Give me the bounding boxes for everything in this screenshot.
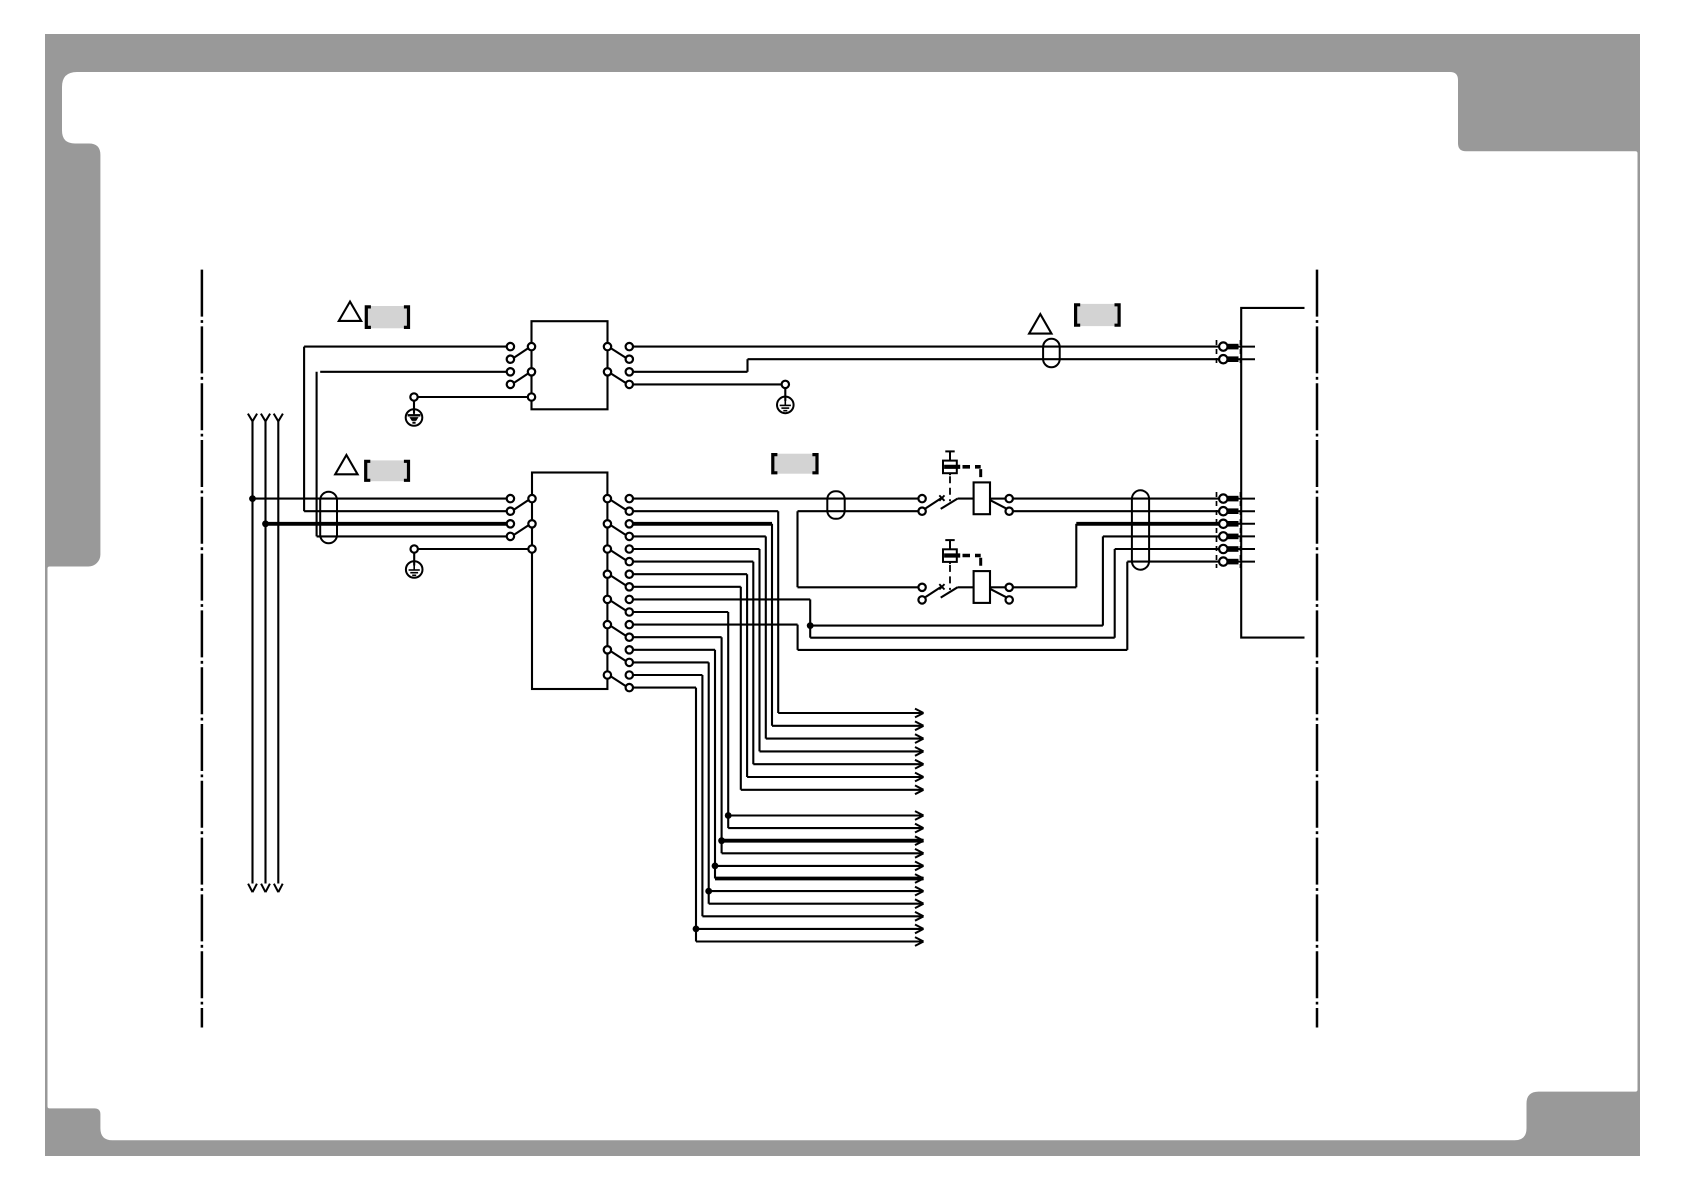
wire: riser top row 549 to pin [1115,548,1220,550]
fan-out arrow group2-1a [728,811,923,820]
wire: breaker2 out to riser thick net [1013,524,1220,588]
shield ellipse right cable [1132,490,1149,569]
caution label box 4 [1076,304,1120,326]
wire: T2 out row to fan arrow group1-1 [633,511,778,713]
connector pin y523 [1219,520,1255,528]
T1 left switch pair 1 [507,343,536,363]
fan-out arrow group1-7 [741,785,924,794]
wire: breaker1 out bottom to connector [1013,510,1220,512]
earth ground symbol near T2 [411,545,418,552]
connector pin guides dashed bottom [1217,492,1241,568]
wire: T2 out row to fan arrow group1-5 [633,562,753,765]
relay output contacts [990,495,1013,515]
fan-out arrow group2-6b [696,937,924,946]
fan-out arrow group2-3a [715,862,924,871]
warning triangle 2 [335,455,357,474]
wire: T1 elbow to T2 row B [304,510,507,512]
wire: breaker1 out top to connector [1013,498,1220,500]
wire: T2 out row to fan group2-4 [633,662,709,903]
fan-out arrow group2-4b [709,899,924,908]
T2 right switch pair 6 [604,621,633,641]
T2 right switch pair 1 [604,495,633,515]
T2 right switch pair 2 [604,520,633,540]
warning triangle 1 [339,302,361,321]
switch contacts [918,584,973,604]
T2 right switch pair 7 [604,646,633,666]
shield ellipse mid cable [827,491,844,519]
earth ground symbol near T1 output [782,381,789,388]
connector pin guides dashed top [1217,340,1241,366]
wire: T2 out row to fan group2-5 [633,675,703,916]
connector pin y549 [1219,545,1255,553]
shield ellipse on T2 input cable [320,492,337,544]
wire: mid route to riser x1103 [810,625,1103,627]
warning triangle 3 [1029,314,1051,334]
wire: T1 input A horizontal [304,346,507,348]
T2 right switch pair 5 [604,596,633,616]
wire: T1 output L with jog [633,359,1220,372]
switch contacts [918,495,973,515]
T1 right switch pair 1 [604,343,633,363]
wire: T2 out row to fan group2-1 [633,612,728,828]
T2 right switch pair 4 [604,571,633,591]
thermal fuse element [943,540,960,564]
left chassis dash-dot rail [201,270,204,1028]
wire: T2 out row to fan arrow group1-4 [633,549,760,751]
T2 left switch pair 2 [507,520,536,540]
mains line 1 with fork top and arrow bottom [248,414,257,893]
wire: mains line1 to T2 contact A [253,498,507,500]
junction dot mains line 2 (thick net) [262,520,269,527]
junction dot fan group2-4 [705,888,712,895]
connector pin y536 [1219,532,1255,540]
junction dot mains line 1 [249,495,256,502]
dashed trip linkage [950,556,981,590]
wire: T1 input C horizontal [320,371,507,373]
mains line 3 with fork top and arrow bottom [274,414,283,893]
wire: T2 out row to fan arrow group1-2 [633,524,772,726]
connector pin y498 [1219,494,1255,502]
junction dot fan group2-1 [725,812,732,819]
transformer block T1 [532,321,608,409]
connector pin y511 [1219,507,1255,515]
junction dot fan group2-3 [712,863,719,870]
T2 ground pin [528,545,535,552]
fan-out arrow group1-3 [766,734,924,743]
junction dot mid route [807,622,814,629]
wire: T2 out row to fan group2-6 [633,688,696,942]
wire: T1 elbow to T2 row D [317,535,507,537]
thermal fuse element [943,451,960,475]
fan-out arrow group1-5 [753,760,923,769]
riser to connector row 536 [1102,536,1104,625]
fan-out arrow group1-4 [760,747,924,756]
connector pin y561 [1219,557,1255,565]
caution label box 1 [366,306,408,328]
relay coil [974,482,990,514]
junction dot fan group2-6 [693,926,700,933]
wire: T2 out row1 to breaker1 [633,498,919,500]
wire: mains line2 to T2 contact C thick [266,522,507,526]
wire: T1 left feed vertical 1 [303,347,305,512]
fan-out arrow group1-1 [778,709,923,718]
wire: T2 row5 to right jog down [633,599,810,637]
relay coil [974,571,990,603]
T1 right switch pair 2 [604,368,633,388]
caution label box 3 [773,454,817,474]
wire: riser top row 536 to pin [1103,535,1220,537]
wire: mid route lower to riser x1115 [810,637,1114,639]
fan-out arrow group2-2a [722,836,924,845]
riser to connector row 562 [1126,562,1128,650]
T2 left switch pair 1 [507,495,536,515]
T2 right switch pair 3 [604,545,633,565]
fan-out arrow group1-6 [747,773,923,782]
connector pin y346 [1219,342,1255,350]
fan-out arrow group1-2 [772,721,924,730]
mains line 2 with fork top and arrow bottom [261,414,270,893]
fan-out arrow group2-5b [702,912,923,921]
connector frame CN1 [1241,308,1304,638]
wire: T1 output M to earth terminal [633,383,782,385]
wire: T1 left feed vertical 2 [316,372,318,537]
relay output contacts [990,584,1013,604]
wire: T1 output J to connector pin 1 [633,346,1220,348]
fan-out arrow group2-3b [715,874,924,883]
T2 right switch pair 8 [604,671,633,691]
connector pin y359 [1219,355,1255,363]
wire: T1 ground pin to earth terminal [418,396,528,398]
wire: riser top row 562 to pin [1127,561,1220,563]
T1 left switch pair 2 [507,368,536,388]
wire: T2 out row to fan group2-3 [633,650,715,879]
shield ellipse top-right cable [1043,339,1060,368]
right chassis dash-dot rail [1316,270,1319,1028]
wire: T2 out row to fan arrow group1-6 [633,574,747,777]
caution label box 2 [366,460,409,481]
junction dot fan group2-2 [718,837,725,844]
wire: breaker1 lower contact feed [798,511,919,587]
riser to connector row 549 [1114,549,1116,638]
fan-out arrow group2-6a [696,925,924,934]
wire: T2 out row to fan arrow group1-7 [633,587,741,790]
transformer block T2 [532,473,607,690]
fan-out arrow group2-1b [728,824,923,833]
wire: T2 ground pin to earth terminal [418,548,529,550]
T1 ground pin G [528,393,535,400]
wire: T2 out row to fan arrow group1-3 [633,536,766,738]
dashed trip linkage [950,467,981,501]
wire: T2 out row to fan group2-2 [633,637,722,853]
chassis ground symbol [410,393,417,400]
fan-out arrow group2-4a [709,887,924,896]
wire: T2 row6 jog down [633,625,1127,650]
fan-out arrow group2-2b [722,849,924,858]
